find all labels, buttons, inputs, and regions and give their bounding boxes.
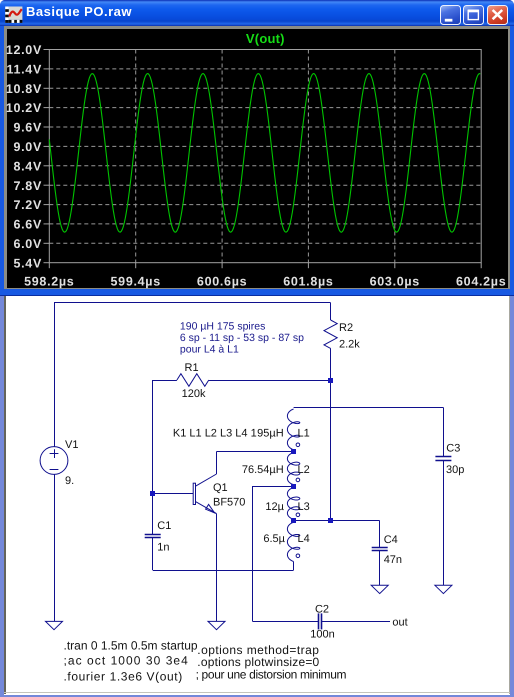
svg-text:V1: V1: [65, 439, 78, 451]
svg-text:603.0µs: 603.0µs: [370, 275, 420, 289]
svg-text:30p: 30p: [446, 464, 464, 476]
svg-text:9.6V: 9.6V: [13, 121, 42, 135]
svg-text:601.8µs: 601.8µs: [283, 275, 333, 289]
svg-text:out: out: [392, 616, 407, 628]
svg-text:6.0V: 6.0V: [13, 237, 42, 251]
svg-text:L4: L4: [298, 533, 310, 545]
svg-text:9.0V: 9.0V: [13, 140, 42, 154]
svg-text:.tran 0 1.5m 0.5m startup: .tran 0 1.5m 0.5m startup: [64, 639, 198, 653]
svg-text:599.4µs: 599.4µs: [111, 275, 161, 289]
svg-text:C3: C3: [446, 442, 460, 454]
svg-text:9.: 9.: [65, 475, 74, 487]
svg-text:pour L4 à L1: pour L4 à L1: [180, 344, 239, 356]
svg-text:7.2V: 7.2V: [13, 198, 42, 212]
svg-text:K1 L1 L2 L3 L4 1: K1 L1 L2 L3 L4 1: [173, 428, 257, 440]
svg-text:L2: L2: [298, 464, 310, 476]
svg-text:11.4V: 11.4V: [7, 63, 42, 77]
svg-text:12.0V: 12.0V: [6, 43, 42, 57]
svg-text:8.4V: 8.4V: [13, 159, 42, 173]
svg-text:12µ: 12µ: [265, 501, 284, 513]
svg-text:76.54µH: 76.54µH: [242, 464, 284, 476]
svg-text:598.2µs: 598.2µs: [24, 275, 74, 289]
svg-text:120k: 120k: [182, 388, 206, 400]
svg-text:1n: 1n: [157, 541, 169, 553]
svg-text:95µH: 95µH: [257, 428, 284, 440]
svg-text:Q1: Q1: [213, 482, 228, 494]
svg-text:100n: 100n: [310, 628, 334, 640]
svg-text:7.8V: 7.8V: [13, 179, 42, 193]
svg-text:6.6V: 6.6V: [13, 218, 42, 232]
svg-text:5.4V: 5.4V: [13, 256, 42, 270]
svg-text:2.2k: 2.2k: [339, 339, 360, 351]
svg-text:L3: L3: [298, 501, 310, 513]
svg-text:C2: C2: [315, 604, 329, 616]
svg-text:604.2µs: 604.2µs: [456, 275, 506, 289]
svg-text:C1: C1: [157, 520, 171, 532]
svg-text:6.5µ: 6.5µ: [263, 533, 285, 545]
svg-text:10.2V: 10.2V: [6, 101, 42, 115]
svg-text:V(out): V(out): [246, 31, 285, 46]
svg-text:;ac oct 1000 30 3e4: ;ac oct 1000 30 3e4: [64, 654, 189, 668]
svg-text:.fourier 1.3e6 V(out): .fourier 1.3e6 V(out): [64, 669, 183, 683]
svg-text:10.8V: 10.8V: [6, 82, 42, 96]
svg-text:600.6µs: 600.6µs: [197, 275, 247, 289]
svg-text:190 µH 175 spires: 190 µH 175 spires: [180, 321, 265, 333]
svg-text:R2: R2: [339, 322, 353, 334]
svg-text:6 sp - 11 sp - 53 sp - 87 sp: 6 sp - 11 sp - 53 sp - 87 sp: [180, 332, 304, 344]
svg-text:47n: 47n: [384, 554, 402, 566]
svg-text:C4: C4: [384, 534, 398, 546]
svg-text:; pour une distorsion minimum: ; pour une distorsion minimum: [196, 668, 347, 682]
svg-text:R1: R1: [185, 362, 199, 374]
svg-text:L1: L1: [298, 428, 310, 440]
svg-text:BF570: BF570: [213, 496, 245, 508]
